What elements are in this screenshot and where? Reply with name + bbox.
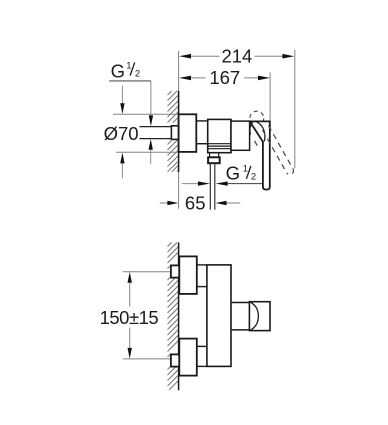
bottom arrow pointing up (120, 153, 124, 164)
bottom escutcheon (bottom view) (179, 339, 197, 376)
svg-text:167: 167 (209, 67, 240, 88)
inlet pipe (horizontal, G1/2) (140, 127, 172, 139)
svg-text:2: 2 (251, 172, 256, 183)
svg-text:214: 214 (221, 46, 252, 67)
body cylinder (top view) (231, 121, 250, 150)
dashed knob (swung lever pivot outline, drawn under handle) (250, 111, 264, 125)
top arrow pointing down (121, 86, 123, 104)
body bottom line extending to escutcheon (197, 365, 207, 367)
bottom wall union (bottom view) (171, 354, 179, 366)
top wall union (bottom view) (171, 265, 179, 277)
extension line for 214 (tip of swung lever) (294, 50, 296, 168)
arrow below pipe pointing up at pipe bottom (149, 139, 153, 164)
svg-text:Ø70: Ø70 (104, 123, 139, 144)
extension line for 167 (lever bar outer edge) (269, 73, 271, 122)
lever handle (solid, pointing down) (250, 121, 270, 189)
leader arrow from G1/2 down to pipe top (149, 81, 153, 126)
top extension line (113, 113, 179, 115)
handle grip (bottom view) (249, 302, 270, 331)
wall hatching (bottom view) (168, 242, 179, 390)
dimension Ø70 (escutcheon diameter) (104, 86, 179, 179)
svg-text:1: 1 (243, 164, 248, 175)
wall face line (top view) (178, 91, 180, 172)
dashed lever (alternate swung position) (255, 126, 294, 175)
handle stem (bottom view) (231, 303, 249, 330)
neck between escutcheon and body (196, 121, 231, 144)
dimension 214 (179, 46, 294, 67)
label G 1/2 (bottom, hose thread) (226, 163, 257, 184)
dimension 65 (wall to hose centre) (160, 192, 240, 213)
wall union (concealed connection, top view) (171, 126, 178, 140)
top neck (bottom view) (197, 286, 207, 288)
cartridge housing (top view) (208, 119, 231, 152)
bottom extension line (116, 151, 179, 153)
wall face extension line (thin, continues above and below wall) (178, 51, 180, 209)
wall face line (bottom view) (178, 242, 180, 390)
grip front curve (251, 302, 259, 330)
body (bottom view) (207, 265, 231, 367)
wall hatching (top view) (168, 91, 179, 172)
label G 1/2 (top, inlet thread) (109, 60, 151, 81)
svg-text:G: G (226, 163, 240, 184)
shower hose connection pipe (vertical) (210, 163, 215, 210)
svg-text:65: 65 (185, 192, 206, 213)
outlet nut (208, 157, 220, 163)
svg-text:2: 2 (135, 68, 140, 79)
dimension 167 (179, 67, 270, 88)
knob front curve on handle (257, 122, 265, 142)
escutcheon (top view) (179, 114, 197, 152)
dimension 150±15 (100, 272, 173, 359)
svg-text:1: 1 (126, 61, 131, 72)
leader arrows of lower G1/2 pointing at hose pipe (182, 181, 263, 185)
extension lines (123, 271, 173, 273)
outlet neck below housing (210, 153, 219, 158)
bottom neck (bottom view) (197, 345, 207, 347)
svg-text:150±15: 150±15 (100, 307, 159, 328)
pivot curve on handle (250, 122, 253, 135)
top escutcheon (bottom view) (179, 256, 197, 294)
dimension line with arrows pointing outward (128, 272, 132, 283)
underline of G1/2 (109, 80, 151, 82)
body top line extending to escutcheon (197, 264, 207, 266)
svg-text:G: G (111, 60, 125, 81)
